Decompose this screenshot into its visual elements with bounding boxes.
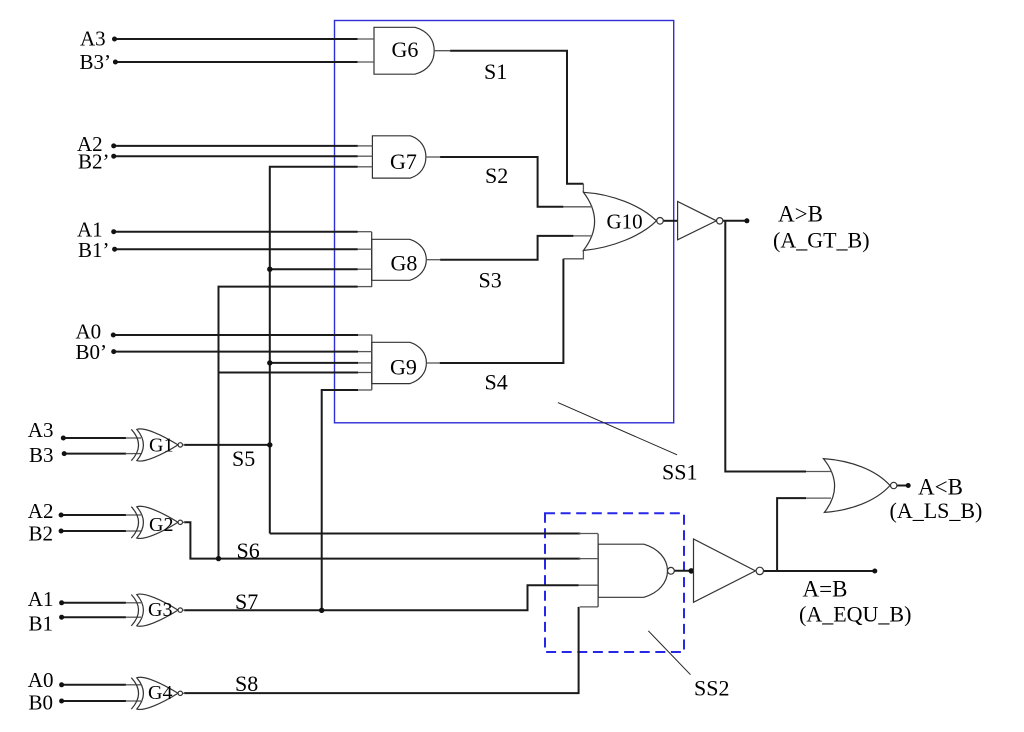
svg-text:S1: S1	[484, 59, 507, 84]
node junction S5-G8	[267, 267, 272, 272]
wire B1' (top)	[115, 248, 358, 250]
and-gate G9	[358, 335, 440, 390]
nand-gate U2 (SS2)	[579, 534, 675, 607]
wire A=B up to NOR pin2	[777, 498, 806, 571]
SS2 callout line	[648, 631, 690, 675]
wire B3 (lower, to G1)	[64, 453, 126, 455]
wire S5 branch to G8 pin3	[270, 268, 358, 270]
xnor-gate G2	[126, 506, 186, 538]
svg-text:G2: G2	[149, 514, 173, 536]
svg-text:S6: S6	[237, 538, 260, 563]
svg-text:A3: A3	[80, 26, 106, 50]
svg-text:B2: B2	[29, 522, 54, 546]
svg-text:(A_EQU_B): (A_EQU_B)	[799, 601, 911, 626]
node junction S6	[216, 556, 221, 561]
node B2 terminal	[59, 529, 64, 534]
wire S1 from G6 to G10 pin1	[450, 51, 583, 184]
wire S8 stub into NAND bottom pin	[580, 606, 598, 608]
svg-text:SS2: SS2	[694, 676, 729, 701]
wire B0 (lower, to G4)	[61, 700, 126, 702]
svg-text:A<B: A<B	[918, 474, 963, 499]
wire S8 from G4 output to NAND pin4	[184, 607, 579, 693]
wire S4 jog into G10 bottom tip	[563, 251, 583, 259]
node A0 terminal	[111, 333, 116, 338]
svg-text:B2’: B2’	[78, 150, 110, 174]
svg-text:G1: G1	[149, 435, 173, 457]
svg-text:A=B: A=B	[803, 576, 848, 601]
svg-text:B3: B3	[29, 443, 54, 467]
wire S7 vertical to G9 pin5	[322, 390, 358, 610]
buffer U3 (A_EQU_B)	[694, 539, 764, 602]
wire A2 (top)	[114, 145, 358, 147]
xnor-gate G1	[126, 429, 186, 461]
wire S5 branch to G9 pin3	[270, 362, 358, 364]
wire A0 (top)	[113, 334, 358, 336]
node A>B end dot	[744, 218, 749, 223]
node junction S5-G9	[267, 360, 272, 365]
wire B3' (top)	[115, 61, 358, 63]
node junction S7	[319, 608, 324, 613]
wire B2' (top)	[114, 155, 358, 157]
svg-text:A2: A2	[28, 499, 54, 523]
svg-text:A3: A3	[28, 418, 54, 442]
node B0' terminal	[111, 349, 116, 354]
svg-text:G6: G6	[392, 37, 419, 62]
svg-text:G8: G8	[391, 251, 418, 276]
svg-text:S7: S7	[235, 589, 258, 614]
wire A1 (top)	[114, 231, 358, 233]
node dot after NAND	[689, 568, 695, 574]
svg-text:S5: S5	[232, 446, 255, 471]
wire S5 from G1 output to junction	[184, 444, 270, 446]
svg-text:S8: S8	[235, 671, 258, 696]
and-gate G7	[358, 136, 441, 178]
wire A_GT_B output	[723, 220, 747, 222]
node B1 terminal	[59, 615, 64, 620]
SS1 callout line	[558, 403, 677, 455]
node B1' terminal	[112, 247, 117, 252]
svg-text:A0: A0	[28, 668, 54, 692]
svg-text:G10: G10	[607, 210, 643, 234]
wire B0' (top)	[114, 351, 359, 353]
svg-text:G7: G7	[390, 149, 417, 174]
node A<B end dot	[906, 483, 911, 488]
svg-text:S2: S2	[485, 163, 508, 188]
SS1 box	[335, 21, 674, 423]
SS2 box (dashed)	[545, 513, 684, 652]
wire A3 (lower, to G1)	[63, 437, 126, 439]
node B0 terminal	[59, 699, 64, 704]
svg-text:B0: B0	[29, 690, 54, 714]
wire A2 (lower, to G2)	[61, 514, 126, 516]
node A3 lower terminal	[61, 436, 66, 441]
node A1 terminal	[111, 229, 116, 234]
wire A3 (top)	[114, 38, 358, 40]
wire A0 (lower, to G4)	[61, 684, 126, 686]
wire S5 to NAND pin1	[270, 533, 581, 535]
svg-text:SS1: SS1	[662, 460, 697, 485]
wire S6 vertical and branch to G8 pin4	[219, 287, 358, 559]
svg-text:G4: G4	[148, 682, 172, 704]
nor-gate U4 (A_LS_B)	[806, 459, 897, 513]
svg-text:A>B: A>B	[778, 201, 823, 226]
and-gate G6	[358, 27, 451, 74]
node B3 terminal	[62, 451, 67, 456]
node A0 lower terminal	[59, 682, 64, 687]
wire G10 output to inverter	[663, 220, 677, 222]
svg-text:(A_LS_B): (A_LS_B)	[890, 498, 983, 523]
wire S3 from G8 to G10 pin3	[440, 236, 573, 260]
node A1 lower terminal	[59, 600, 64, 605]
svg-text:B3’: B3’	[80, 50, 112, 74]
svg-text:B1’: B1’	[78, 238, 110, 262]
wire A_LS_B output	[897, 485, 908, 487]
wire S6 branch to G9 pin4	[219, 372, 359, 374]
svg-text:G9: G9	[390, 354, 417, 379]
node A2 terminal	[111, 143, 116, 148]
wire A>B down to NOR pin1	[725, 221, 806, 472]
node A3 terminal	[112, 37, 117, 42]
svg-text:A1: A1	[28, 587, 54, 611]
node A2 lower terminal	[59, 513, 64, 518]
xnor-gate G3	[126, 594, 186, 626]
wire S7 from G3 output to NAND pin3	[184, 585, 579, 610]
xnor-gate G4	[126, 677, 186, 709]
node A=B end dot	[872, 569, 877, 574]
wire B1 (lower, to G3)	[61, 616, 126, 618]
inverter U1 (A_GT_B)	[678, 202, 723, 240]
and-gate G8	[358, 232, 441, 287]
svg-text:B0’: B0’	[76, 340, 108, 364]
wire A1 (lower, to G3)	[61, 602, 126, 604]
svg-text:(A_GT_B): (A_GT_B)	[773, 227, 870, 252]
svg-text:S4: S4	[485, 369, 508, 394]
svg-text:S3: S3	[479, 267, 502, 292]
wire S4 from G9 to G10 pin4	[440, 259, 564, 363]
wire NAND output to buffer	[674, 570, 693, 572]
node B2' terminal	[111, 154, 116, 159]
wire S5 vertical and branch to G7 pin3	[270, 167, 358, 534]
nor-gate G10	[563, 192, 663, 250]
wire A_EQU_B output	[764, 570, 875, 572]
svg-text:B1: B1	[29, 612, 54, 636]
node junction S5	[267, 442, 272, 447]
svg-text:G3: G3	[148, 599, 172, 621]
wire B2 (lower, to G2)	[61, 530, 126, 532]
wire S2 from G7 to G10 pin2	[440, 157, 563, 207]
node B3' terminal	[113, 60, 118, 65]
wire S6 from G2 output to NAND pin2	[184, 522, 580, 558]
